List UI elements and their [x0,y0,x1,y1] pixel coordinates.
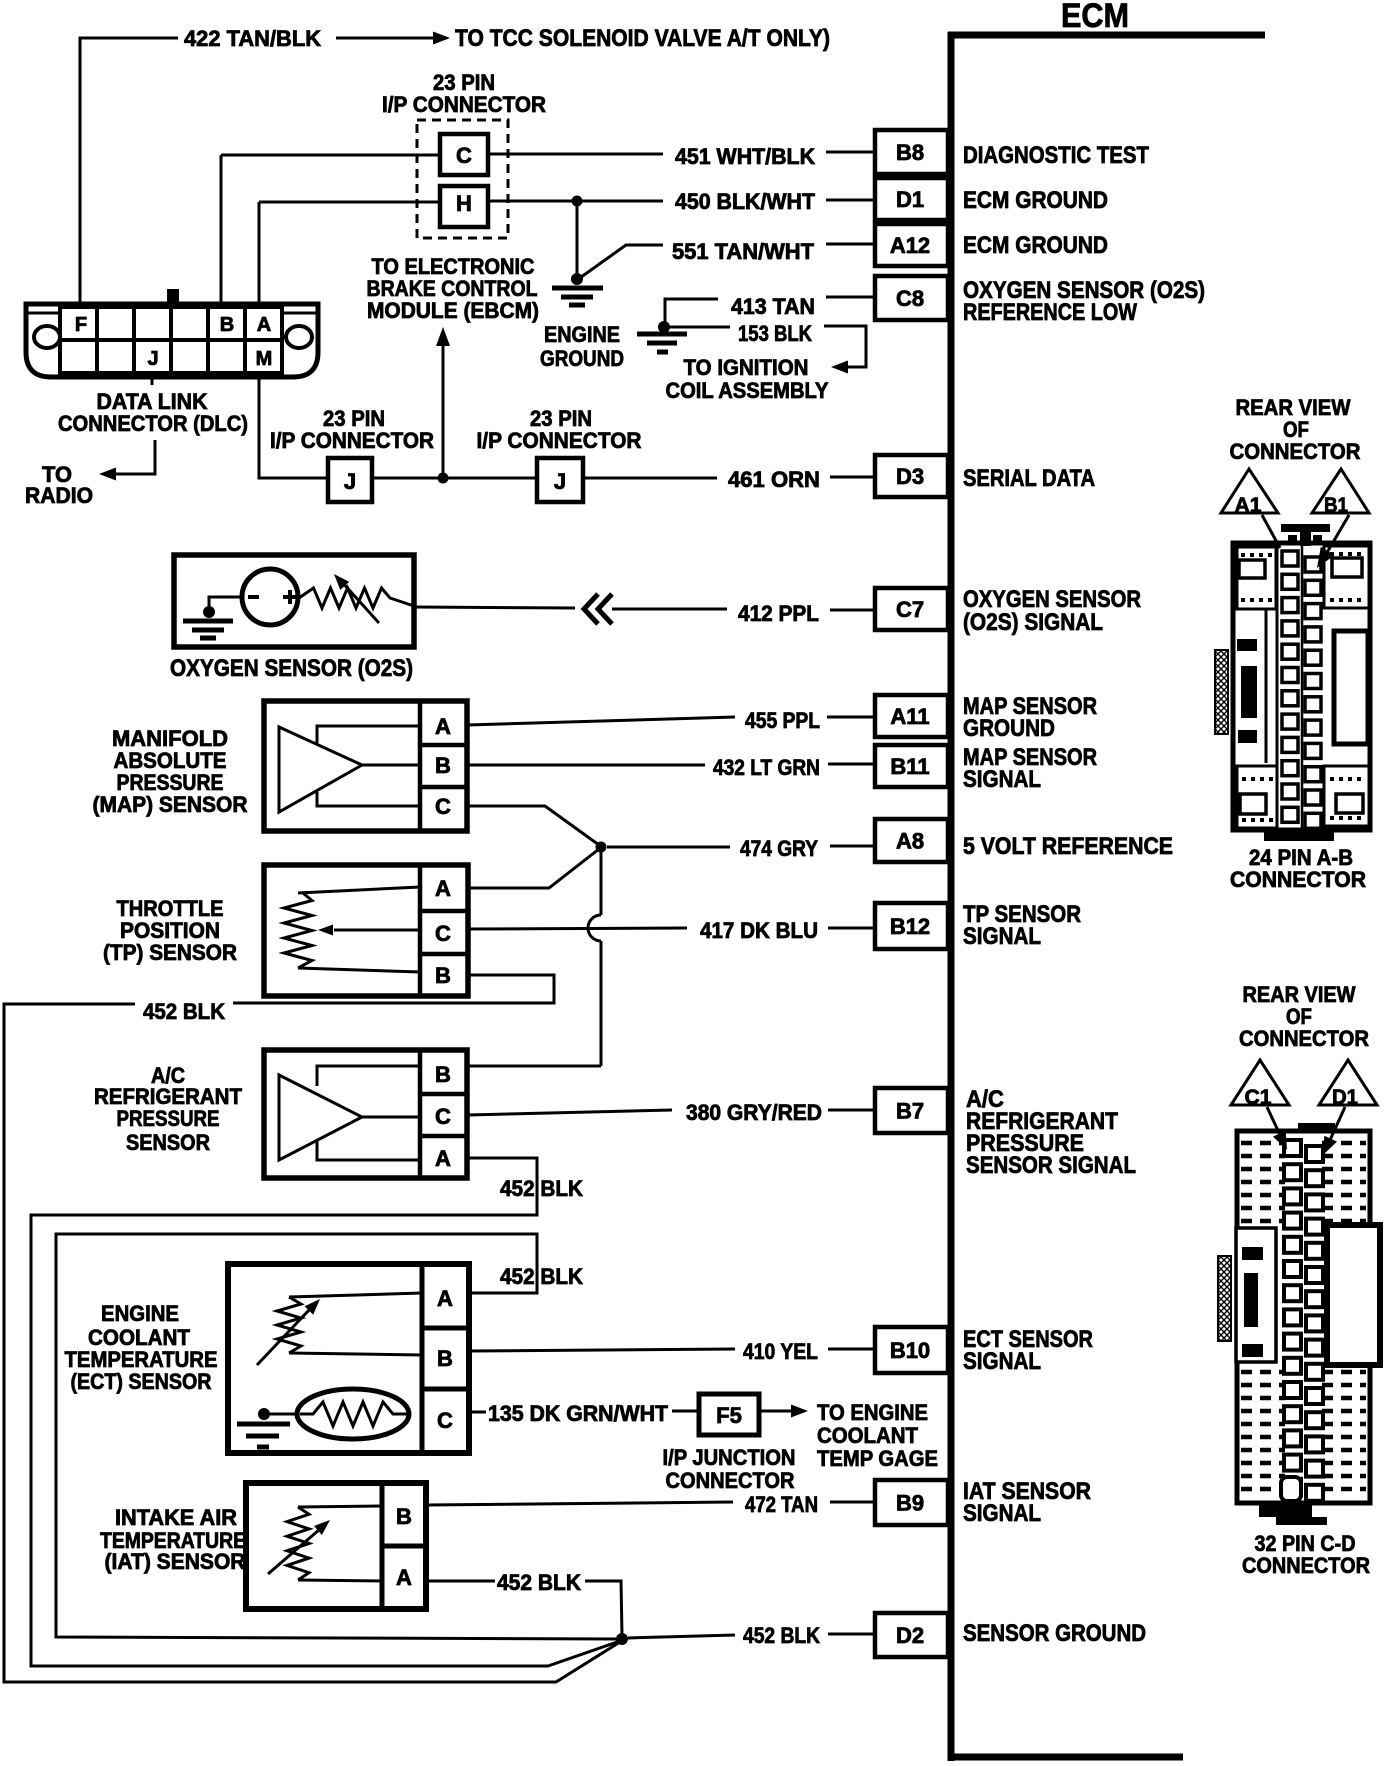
wire 551 TAN/WHT to A12 [577,244,875,280]
svg-text:C7: C7 [896,597,924,622]
callout triangle C1 [1231,1060,1289,1109]
wire 380 GRY/RED to B7 [467,1110,875,1115]
wire 451 WHT/BLK right segment to B8 [488,152,875,154]
DLC pin M [256,348,273,370]
svg-text:452 BLK: 452 BLK [500,1264,583,1289]
ECT internal ground [237,1408,298,1447]
ECM pin function label REFERENCE LOW [963,299,1137,326]
label (TP) SENSOR [103,940,237,965]
ECT sensor pin B [437,1346,453,1371]
svg-text:COIL ASSEMBLY: COIL ASSEMBLY [666,378,829,403]
svg-text:461 ORN: 461 ORN [728,467,820,492]
svg-text:B: B [437,1346,453,1371]
junction dot on 450 wire [572,196,583,207]
svg-text:B: B [435,753,451,778]
MAP sensor pin B [435,753,451,778]
svg-text:TO TCC SOLENOID VALVE A/T ONLY: TO TCC SOLENOID VALVE A/T ONLY) [455,25,830,52]
junction node 5 volt reference [596,842,607,853]
svg-text:COOLANT: COOLANT [817,1423,919,1448]
wire 452 BLK from TP pin B (left return) [4,975,620,1682]
IAT sensor pin B [396,1504,412,1529]
svg-text:432 LT GRN: 432 LT GRN [713,755,820,780]
wire 461 ORN to D3 [583,477,875,478]
svg-text:(MAP) SENSOR: (MAP) SENSOR [93,792,248,817]
ECM pin function label A/C [966,1086,1004,1113]
label TO TCC SOLENOID VALVE A/T ONLY) [455,25,830,52]
label SENSOR (A/C) [126,1130,210,1155]
svg-text:C: C [435,921,451,946]
label 461 ORN [728,467,820,492]
svg-text:INTAKE AIR: INTAKE AIR [115,1505,237,1530]
DLC pin A [257,314,271,336]
sensor ground junction node [616,1633,628,1645]
engine ground symbol [552,273,603,305]
ECM pin A8 terminal box [875,819,948,862]
svg-text:D1: D1 [896,187,924,212]
svg-text:GROUND: GROUND [963,715,1055,742]
I/P connector pin J box (second) [537,458,583,502]
ECM title label [1061,0,1129,35]
wire 135 to F5 junction [672,1410,697,1413]
label CONNECTOR (24 pin) [1230,867,1366,892]
label 24 PIN A-B [1249,845,1353,870]
svg-text:F5: F5 [716,1403,742,1428]
label 417 DK BLU [700,918,818,943]
ECM pin B8 terminal box [875,130,948,174]
svg-text:SIGNAL: SIGNAL [963,1500,1041,1527]
svg-text:SENSOR: SENSOR [126,1130,210,1155]
junction dot on serial data wire [438,473,449,484]
wire 153 BLK to ignition coil arrow [824,326,866,374]
ECM pin B9 terminal box [875,1480,948,1525]
wire AC pin B to junction branch [467,1065,601,1068]
svg-text:A: A [437,1286,453,1311]
svg-text:CONNECTOR: CONNECTOR [1230,439,1361,464]
label 380 GRY/RED [686,1100,822,1125]
label ENGINE [544,322,620,347]
MAP sensor box with amplifier symbol [264,701,467,831]
pointer line from A1 [1262,515,1280,548]
label 412 PPL [738,601,819,626]
ECM pin function label REFRIGERANT [966,1108,1118,1135]
svg-text:C8: C8 [896,286,924,311]
label REAR VIEW (A-B) [1236,395,1351,420]
wire 452 BLK from ECT pin A (return loop) [56,1234,619,1639]
ECM pin function label ECM GROUND [963,187,1108,214]
label 452 BLK (IAT) [497,1570,581,1595]
ECM pin function label OXYGEN SENSOR [963,586,1141,613]
svg-text:F: F [75,314,87,336]
wire 472 TAN to B9 [426,1502,875,1505]
ECM pin function label ECM GROUND [963,232,1108,259]
svg-text:C: C [435,794,451,819]
svg-text:TO ENGINE: TO ENGINE [817,1400,928,1425]
label OXYGEN SENSOR (O2S) [170,655,413,682]
label 451 WHT/BLK [675,144,815,169]
TP sensor pin B [435,963,451,988]
wire 422 arrow to TCC solenoid [336,32,450,45]
svg-text:B9: B9 [896,1491,924,1516]
arrow F5 to coolant temp gage [759,1405,808,1418]
svg-text:410 YEL: 410 YEL [743,1339,818,1364]
label 452 BLK (ECT return) [500,1264,583,1289]
ECM pin D1 terminal box [875,178,948,220]
24 pin A-B connector body (rear view) [1215,524,1370,841]
label RADIO [25,483,93,508]
ECM pin function label MAP SENSOR [963,693,1097,720]
label CONNECTOR (DLC) [58,411,248,436]
ECM pin B11 terminal box [875,745,948,787]
svg-text:OXYGEN SENSOR (O2S): OXYGEN SENSOR (O2S) [170,655,413,682]
label TO IGNITION [684,355,809,380]
ECM pin function label ECT SENSOR [963,1326,1093,1353]
wire 451 WHT/BLK left segment (DLC B to pin C) [221,155,440,304]
svg-text:422 TAN/BLK: 422 TAN/BLK [184,26,321,51]
svg-text:J: J [147,348,158,370]
svg-text:B: B [435,963,451,988]
svg-text:A: A [396,1565,412,1590]
second engine ground symbol [637,321,687,352]
oxygen sensor variable resistor [299,574,414,623]
label THROTTLE [117,896,224,921]
wire 474 GRY to A8 [607,846,875,847]
wire from 450 junction down to engine ground [576,201,579,278]
ECT sensor pin A [437,1286,453,1311]
label A/C [151,1063,185,1088]
svg-text:451 WHT/BLK: 451 WHT/BLK [675,144,815,169]
wire 450 BLK/WHT left segment (DLC A to pin H) [259,202,440,304]
wire from 5V junction down to A/C sensor [588,852,601,1066]
AC sensor pin C [435,1104,451,1129]
AC refrigerant pressure sensor box with amplifier [264,1050,467,1178]
svg-text:RADIO: RADIO [25,483,93,508]
wire 422 TAN/BLK from DLC pin F [80,38,178,304]
ECM pin C8 terminal box [875,276,948,320]
label INTAKE AIR [115,1505,237,1530]
label 135 DK GRN/WHT [488,1401,669,1426]
DLC pin J [147,348,158,370]
svg-text:551 TAN/WHT: 551 TAN/WHT [672,239,815,264]
svg-text:A8: A8 [896,829,924,854]
ECM pin function label IAT SENSOR [963,1478,1091,1505]
svg-text:SENSOR SIGNAL: SENSOR SIGNAL [966,1152,1136,1179]
AC sensor pin B [435,1062,451,1087]
svg-text:452 BLK: 452 BLK [143,999,225,1024]
label ENGINE (ECT) [101,1301,179,1326]
I/P connector pin H box [440,186,488,227]
label TO ELECTRONIC [372,254,535,279]
svg-text:450 BLK/WHT: 450 BLK/WHT [675,189,816,214]
label 422 TAN/BLK [184,26,321,51]
TP sensor pin C [435,921,451,946]
svg-text:A12: A12 [890,233,930,258]
svg-text:472 TAN: 472 TAN [745,1492,818,1517]
svg-text:B: B [396,1504,412,1529]
wire 452 BLK from AC pin A (return loop) [31,1158,620,1666]
svg-text:D3: D3 [896,464,924,489]
wire 450 BLK/WHT right segment to D1 [488,200,875,201]
svg-text:474 GRY: 474 GRY [740,836,818,861]
ECM pin function label 5 VOLT REFERENCE [963,833,1173,860]
IAT sensor box with thermistor [246,1483,426,1609]
label I/P JUNCTION [663,1445,796,1470]
ECT thermistor oval [297,1389,409,1439]
wire 417 DK BLU to B12 [468,928,875,929]
label 32 PIN C-D [1255,1531,1356,1556]
label 23 PIN (J1) [323,406,385,431]
AC sensor pin A [435,1146,451,1171]
wire 413 TAN to C8 [665,297,875,322]
svg-text:455 PPL: 455 PPL [745,708,820,733]
svg-text:452 BLK: 452 BLK [500,1176,583,1201]
ECM pin function label SIGNAL [963,766,1041,793]
label CONNECTOR (C-D rear view) [1239,1026,1369,1051]
svg-text:SIGNAL: SIGNAL [963,1348,1041,1375]
label MODULE (EBCM) [367,298,539,323]
svg-text:(O2S) SIGNAL: (O2S) SIGNAL [963,609,1103,636]
chevron break symbol on 412 wire [584,594,612,624]
svg-text:ENGINE: ENGINE [544,322,620,347]
svg-text:5 VOLT REFERENCE: 5 VOLT REFERENCE [963,833,1173,860]
label MANIFOLD [112,726,228,751]
wire 455 PPL to A11 [467,717,875,725]
wire TP pin A to 5V junction [468,849,599,888]
svg-text:ENGINE: ENGINE [101,1301,179,1326]
label I/P CONNECTOR (J2) [477,428,642,453]
ECT sensor pin C [437,1408,453,1433]
ECM pin D3 terminal box [875,455,948,497]
ECM pin function label DIAGNOSTIC TEST [963,142,1149,169]
svg-text:(TP) SENSOR: (TP) SENSOR [103,940,237,965]
label PRESSURE (A/C) [117,1106,220,1131]
label COOLANT (gage) [817,1423,919,1448]
label 450 BLK/WHT [675,189,816,214]
label 474 GRY [740,836,818,861]
svg-text:B12: B12 [890,914,930,939]
svg-text:H: H [456,191,472,216]
wire 410 YEL to B10 [469,1349,875,1351]
svg-text:C1: C1 [1245,1086,1272,1109]
svg-text:REFERENCE LOW: REFERENCE LOW [963,299,1137,326]
svg-text:CONNECTOR: CONNECTOR [666,1468,795,1493]
svg-text:J: J [554,469,566,494]
MAP sensor pin C [435,794,451,819]
label TO ENGINE [817,1400,928,1425]
svg-text:J: J [344,469,356,494]
ECM pin D2 terminal box [875,1613,948,1657]
svg-text:452 BLK: 452 BLK [743,1623,820,1648]
wire DLC pin M to first J connector [259,377,326,478]
svg-text:417 DK BLU: 417 DK BLU [700,918,818,943]
oxygen sensor O2S box with source symbol [174,555,414,647]
wire to EBCM with up arrow [436,327,450,478]
pointer line from C1 [1267,1107,1287,1150]
label 452 BLK (TP return) [143,999,225,1024]
svg-text:ECM GROUND: ECM GROUND [963,232,1108,259]
svg-text:(IAT) SENSOR: (IAT) SENSOR [105,1549,246,1574]
wire MAP pin C to 5V junction [467,806,599,845]
svg-text:ECM GROUND: ECM GROUND [963,187,1108,214]
svg-text:SIGNAL: SIGNAL [963,923,1041,950]
label 23 PIN (J2) [530,406,592,431]
svg-text:I/P JUNCTION: I/P JUNCTION [663,1445,796,1470]
DLC J pin stub [151,377,154,385]
label POSITION [120,918,220,943]
wire 412 PPL to C7 [612,609,875,610]
wire 412 PPL from O2S [414,607,575,608]
label REAR VIEW (C-D) [1243,982,1356,1007]
label 551 TAN/WHT [672,239,815,264]
svg-text:A11: A11 [890,704,929,729]
TP sensor box with potentiometer [264,865,468,996]
label ABSOLUTE [114,748,227,773]
wire 135 DK GRN/WHT from ECT pin C [469,1411,486,1414]
label 23 PIN (top) [433,70,495,95]
label TO [42,462,72,487]
svg-text:SERIAL DATA: SERIAL DATA [963,465,1095,492]
svg-text:153 BLK: 153 BLK [738,321,812,346]
wire 153 BLK from ground [670,326,730,329]
label (ECT) SENSOR [71,1369,212,1394]
svg-text:B1: B1 [1324,494,1348,517]
DLC pin B [220,314,234,336]
svg-text:B10: B10 [890,1338,930,1363]
IAT sensor pin A [396,1565,412,1590]
ECM pin B10 terminal box [875,1327,948,1373]
svg-text:A1: A1 [1235,494,1262,517]
svg-text:B7: B7 [896,1099,924,1124]
32 pin C-D connector body (rear view) [1218,1123,1380,1525]
wire 432 LT GRN to B11 [467,764,875,765]
svg-text:DIAGNOSTIC TEST: DIAGNOSTIC TEST [963,142,1149,169]
wire 452 BLK from IAT pin A [426,1581,622,1636]
svg-text:452 BLK: 452 BLK [497,1570,581,1595]
label (MAP) SENSOR [93,792,248,817]
I/P connector pin C box [440,134,488,175]
svg-text:B8: B8 [896,140,924,165]
wire between J connectors (serial data) [372,477,535,480]
svg-text:C: C [437,1408,453,1433]
svg-text:SENSOR GROUND: SENSOR GROUND [963,1620,1146,1647]
23 pin I/P connector dashed outline [417,120,508,238]
oxygen sensor internal ground [183,606,233,638]
svg-text:380 GRY/RED: 380 GRY/RED [686,1100,822,1125]
label 153 BLK [738,321,812,346]
ECM pin A11 terminal box [875,695,948,737]
svg-text:SIGNAL: SIGNAL [963,766,1041,793]
label 472 TAN [745,1492,818,1517]
ECM pin B7 terminal box [875,1088,948,1133]
label CONNECTOR (F5) [666,1468,795,1493]
label GROUND [540,346,624,371]
pointer line from B1 [1317,515,1349,568]
svg-text:B11: B11 [890,754,929,779]
label (IAT) SENSOR [105,1549,246,1574]
svg-text:A: A [435,1146,451,1171]
svg-text:D2: D2 [896,1623,924,1648]
svg-text:PRESSURE: PRESSURE [117,1106,220,1131]
ECM pin function label SENSOR GROUND [963,1620,1146,1647]
ECM pin function label OXYGEN SENSOR (O2S) [963,277,1205,304]
svg-text:CONNECTOR (DLC): CONNECTOR (DLC) [58,411,248,436]
svg-text:A: A [257,314,271,336]
MAP sensor pin A [435,714,451,739]
svg-text:M: M [256,348,273,370]
ECM module boundary line [948,32,1265,1761]
ECM pin function label SENSOR SIGNAL [966,1152,1136,1179]
svg-text:A: A [435,876,451,901]
callout triangle D1 [1319,1060,1377,1109]
svg-text:412 PPL: 412 PPL [738,601,819,626]
label CONNECTOR (32 pin) [1242,1553,1370,1578]
svg-text:MODULE (EBCM): MODULE (EBCM) [367,298,539,323]
ECM pin B12 terminal box [875,903,948,949]
label CONNECTOR (A-B rear view) [1230,439,1361,464]
label BRAKE CONTROL [367,276,538,301]
TP sensor pin A [435,876,451,901]
label 455 PPL [745,708,820,733]
svg-text:B: B [220,314,234,336]
Data Link Connector (DLC) shell [26,289,318,377]
svg-text:C: C [435,1104,451,1129]
svg-text:413 TAN: 413 TAN [731,294,815,319]
ECM pin function label GROUND [963,715,1055,742]
label COIL ASSEMBLY [666,378,829,403]
svg-text:C: C [456,143,472,168]
wire DLC to radio with arrow [99,440,155,481]
ECM pin function label SERIAL DATA [963,465,1095,492]
label TEMP GAGE [817,1446,938,1471]
DLC pin F [75,314,87,336]
ECM pin function label TP SENSOR [963,901,1081,928]
label 432 LT GRN [713,755,820,780]
label REFRIGERANT [94,1084,243,1109]
label 410 YEL [743,1339,818,1364]
label 452 BLK (AC return) [500,1176,583,1201]
svg-text:(ECT) SENSOR: (ECT) SENSOR [71,1369,212,1394]
ECT sensor box with thermistor [228,1264,469,1453]
label PRESSURE [117,770,224,795]
ECM pin function label SIGNAL [963,1348,1041,1375]
svg-text:I/P CONNECTOR: I/P CONNECTOR [382,92,546,117]
svg-text:TEMP GAGE: TEMP GAGE [817,1446,938,1471]
wire 452 BLK to D2 [628,1634,875,1638]
I/P connector pin J box (first) [328,458,372,502]
svg-text:CONNECTOR: CONNECTOR [1242,1553,1370,1578]
label DATA LINK [97,389,208,414]
svg-text:D1: D1 [1332,1086,1358,1109]
label 413 TAN [731,294,815,319]
label 452 BLK (sensor ground) [743,1623,820,1648]
svg-text:TO IGNITION: TO IGNITION [684,355,809,380]
ECM pin A12 terminal box [875,224,948,266]
svg-text:CONNECTOR: CONNECTOR [1230,867,1366,892]
ECM pin function label (O2S) SIGNAL [963,609,1103,636]
label I/P CONNECTOR (J1) [270,428,434,453]
callout triangle B1 [1312,469,1369,517]
svg-text:CONNECTOR: CONNECTOR [1239,1026,1369,1051]
svg-text:GROUND: GROUND [540,346,624,371]
svg-text:B: B [435,1062,451,1087]
svg-text:ECM: ECM [1061,0,1129,35]
ECM pin function label SIGNAL [963,923,1041,950]
ECM pin function label SIGNAL [963,1500,1041,1527]
ECM pin function label PRESSURE [966,1130,1084,1157]
label I/P CONNECTOR (top) [382,92,546,117]
label OF (C-D) [1286,1004,1312,1029]
label TEMPERATURE (ECT) [65,1347,218,1372]
label COOLANT (ECT) [88,1325,191,1350]
